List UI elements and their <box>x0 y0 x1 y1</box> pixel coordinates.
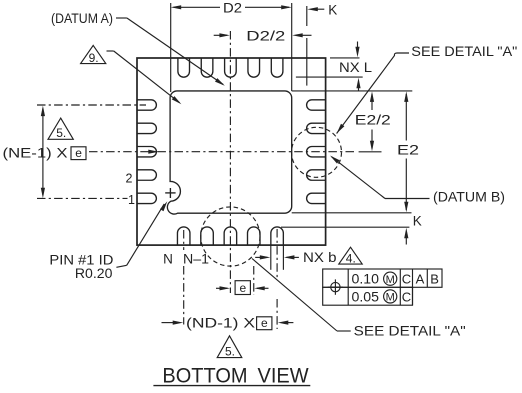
svg-text:E2: E2 <box>397 142 419 158</box>
top pad col 4 <box>248 58 260 77</box>
svg-text:1: 1 <box>128 193 135 207</box>
left pad row 1 <box>137 100 156 110</box>
svg-text:(NE-1) X: (NE-1) X <box>3 145 68 160</box>
dimension E2/2 <box>355 91 391 151</box>
detail circle A (right side) <box>292 127 342 177</box>
svg-text:4.: 4. <box>346 251 356 265</box>
svg-text:E2/2: E2/2 <box>355 112 391 128</box>
left pad row 2 <box>137 123 156 133</box>
svg-text:5.: 5. <box>56 126 66 140</box>
svg-text:N–1: N–1 <box>183 252 209 267</box>
note triangle 9 <box>81 45 182 104</box>
svg-text:M: M <box>386 274 395 286</box>
detail circle A (bottom) <box>201 207 260 266</box>
leader SEE DETAIL A (bottom) <box>252 259 466 339</box>
svg-text:2: 2 <box>126 171 133 185</box>
pin number 1 <box>128 193 135 207</box>
right pad row 1 <box>307 100 326 110</box>
bottom pad labels N and N-1 <box>163 252 209 267</box>
QFN package body outline (bottom view) <box>137 58 326 245</box>
dimension K (right) <box>404 213 422 244</box>
E2 extension line top <box>292 90 413 92</box>
dimension (NE-1) X e <box>3 106 87 199</box>
svg-text:(ND-1) X: (ND-1) X <box>186 316 255 331</box>
bottom pad 4 extension centerline <box>253 266 255 295</box>
leader DATUM B <box>330 156 505 205</box>
left pad row 3 <box>137 147 156 157</box>
exposed thermal pad (with pin-1 ID notch) <box>167 91 291 214</box>
row 5 left extension centerline (pin 1) <box>37 197 128 199</box>
svg-text:K: K <box>413 213 422 228</box>
dimension K (top) <box>307 3 337 18</box>
svg-text:0.05: 0.05 <box>352 289 380 304</box>
dimension NX b <box>255 250 336 265</box>
right pad row 2 <box>307 123 326 133</box>
dimension D2 <box>171 0 292 15</box>
bottom pad col 5 <box>271 227 284 245</box>
bottom pad col 1 <box>177 227 190 245</box>
dimension (ND-1) X e <box>162 316 294 331</box>
horizontal centerline (datum B axis) <box>89 150 355 154</box>
svg-text:e: e <box>261 316 268 330</box>
right pad row 5 <box>307 193 326 203</box>
svg-text:SEE DETAIL "A": SEE DETAIL "A" <box>411 44 517 59</box>
svg-text:C: C <box>402 272 411 287</box>
vertical centerline (datum A axis) <box>229 31 231 293</box>
lead-tip reference line right (for K) <box>306 6 308 86</box>
svg-text:(DATUM B): (DATUM B) <box>433 190 505 205</box>
svg-text:N: N <box>163 252 173 267</box>
leader PIN #1 ID R0.20 <box>49 201 167 281</box>
dimension e (pad pitch) <box>216 281 269 295</box>
D2 extension line left <box>170 3 172 92</box>
bottom pad 5 extension centerline <box>276 229 278 329</box>
svg-text:R0.20: R0.20 <box>75 266 113 281</box>
right pad row 3 <box>307 147 326 157</box>
dimension E2 <box>397 91 419 212</box>
svg-text:BOTTOM VIEW: BOTTOM VIEW <box>162 365 308 388</box>
pin 1 ID marker (+) <box>165 188 175 198</box>
leader DATUM A <box>51 11 225 86</box>
leader SEE DETAIL A (top) <box>337 44 518 133</box>
dimension NX L <box>296 42 373 92</box>
NX b extension lines (pad 5 sides) <box>271 245 284 270</box>
D2 extension line right <box>291 3 293 91</box>
svg-text:9.: 9. <box>89 51 99 65</box>
top pad col 3 <box>225 58 237 77</box>
svg-text:D2/2: D2/2 <box>246 27 285 43</box>
svg-text:K: K <box>328 3 337 18</box>
svg-text:5.: 5. <box>225 344 235 358</box>
bottom pad col 3 <box>224 227 237 245</box>
feature control frame (position tolerance) <box>323 269 442 305</box>
row 1 left extension centerline <box>37 104 146 106</box>
bottom pad col 2 <box>201 227 214 245</box>
top pad col 5 <box>271 58 283 77</box>
svg-text:B: B <box>430 272 439 287</box>
title BOTTOM VIEW <box>153 365 310 388</box>
note triangle 5 (bottom) <box>217 336 242 359</box>
note triangle 5 (left) <box>48 118 73 140</box>
left pad row 5 (pin 1) <box>137 193 156 203</box>
right pad row 4 <box>307 170 326 180</box>
svg-text:e: e <box>75 146 82 160</box>
svg-text:D2: D2 <box>223 0 242 15</box>
note triangle 4 <box>339 247 362 265</box>
svg-text:C: C <box>402 289 411 304</box>
svg-text:e: e <box>239 281 246 295</box>
svg-text:(DATUM A): (DATUM A) <box>51 11 113 26</box>
left pad row 4 (pin 2) <box>137 170 156 180</box>
svg-text:M: M <box>386 292 395 304</box>
bottom pad col 4 <box>248 227 261 245</box>
top pad col 1 <box>178 58 190 77</box>
top pad col 2 <box>201 58 213 77</box>
svg-text:SEE DETAIL "A": SEE DETAIL "A" <box>354 323 466 338</box>
svg-text:NX b: NX b <box>303 250 337 265</box>
svg-text:0.10: 0.10 <box>352 272 380 287</box>
E2 extension line bottom <box>292 212 412 214</box>
bottom pad 1 extension centerline <box>183 230 185 325</box>
dimension D2/2 <box>214 27 312 43</box>
svg-text:A: A <box>416 272 425 287</box>
svg-text:NX L: NX L <box>339 60 373 75</box>
lead-tip reference line bottom (for K) <box>281 226 409 228</box>
pin number 2 <box>126 171 133 185</box>
